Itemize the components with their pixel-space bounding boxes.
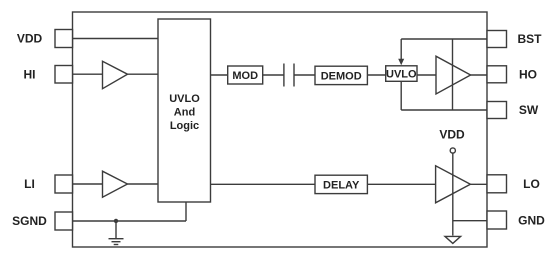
wire logic block to MOD [211,74,228,76]
pin BST [487,31,507,48]
node VDD terminal circle [450,148,455,153]
arrowhead into UVLO [398,59,404,65]
buffer HI input [103,61,128,88]
svg-text:SW: SW [519,103,539,117]
pin VDD (left) [55,30,73,48]
svg-text:UVLO: UVLO [386,69,417,81]
capacitor C1 plate left [283,64,285,87]
ground arrow (power ground) [445,236,461,243]
block UVLO (high side) [386,66,417,82]
node junction dot [114,219,118,223]
wire GND rail [453,220,487,222]
wire UVLO to HO driver [417,74,436,76]
svg-text:UVLO: UVLO [169,93,200,105]
svg-text:Logic: Logic [170,120,199,132]
svg-text:GND: GND [518,213,545,227]
wire BST pin stub [400,39,402,60]
wire LI pin to input buffer [73,183,103,185]
buffer LI input [103,171,128,197]
svg-text:HO: HO [519,68,537,82]
svg-text:HI: HI [24,67,36,81]
svg-text:LI: LI [24,177,35,191]
wire HO driver supply vertical [452,39,454,110]
ground symbol (signal ground) [109,221,124,245]
svg-text:DEMOD: DEMOD [321,70,362,82]
pin HO [487,66,507,83]
pin SW [487,102,507,119]
block DEMOD [315,66,367,84]
wire SGND pin line [73,220,187,222]
wire HI pin to input buffer [73,73,103,75]
wire LO driver supply vertical [452,153,454,235]
wire HI buffer to logic block [128,73,159,75]
pin GND [487,211,507,229]
pin SGND [55,212,73,230]
wire BST rail [401,38,487,40]
buffer HO driver [436,56,471,94]
wire SW rail [401,109,487,111]
wire DELAY to LO driver [367,183,435,185]
wire logic block to DELAY [211,183,316,185]
block UVLO And Logic [158,19,211,202]
pin LI [55,175,73,193]
pin HI [55,66,73,84]
wire MOD to capacitor [263,74,284,76]
buffer LO driver [436,166,471,203]
svg-text:BST: BST [518,32,543,46]
svg-text:LO: LO [523,177,540,191]
wire VDD pin to logic block [73,38,159,40]
wire LO output [470,183,487,185]
wire UVLO to SW rail [400,81,402,110]
wire LI buffer to logic block [128,183,159,185]
svg-text:MOD: MOD [232,70,258,82]
svg-text:SGND: SGND [12,214,47,228]
wire SGND up to logic block [185,202,187,221]
wire HO output [471,74,487,76]
IC outline [73,12,488,247]
block DELAY [315,175,367,193]
pin LO [487,175,507,193]
svg-text:And: And [174,107,195,119]
wire DEMOD to UVLO [367,74,385,76]
block MOD [228,66,263,84]
capacitor C1 plate right [293,64,295,87]
svg-text:VDD: VDD [17,32,43,46]
wire capacitor to DEMOD [294,74,315,76]
svg-text:DELAY: DELAY [323,180,360,192]
svg-text:VDD: VDD [439,128,465,142]
